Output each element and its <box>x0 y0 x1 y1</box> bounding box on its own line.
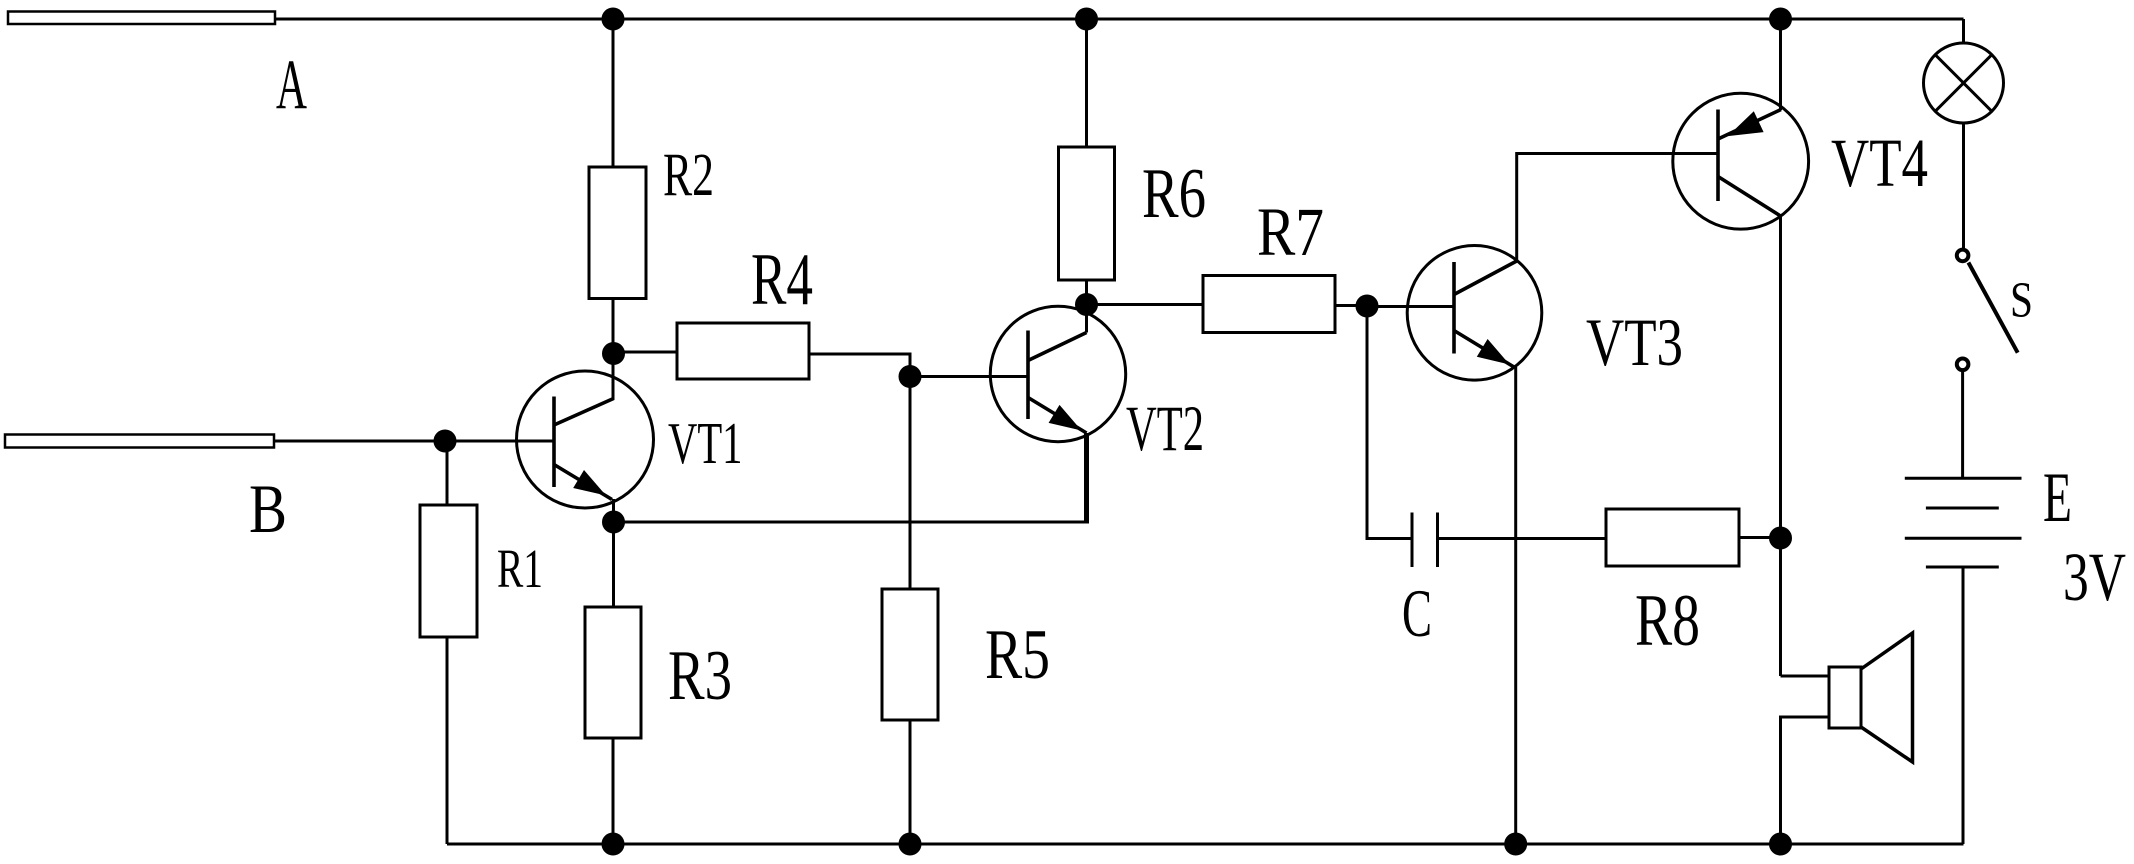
junction top rail / R2 <box>603 9 623 29</box>
capacitor C <box>1412 513 1438 568</box>
wire top rail <box>275 18 1964 21</box>
speaker <box>1829 633 1913 762</box>
wire battery to bottom rail <box>1962 567 1965 844</box>
junction bottom rail / R3 <box>603 834 623 854</box>
probe A <box>8 12 275 25</box>
wire R7 right <box>1335 304 1367 307</box>
wire R2 bottom to VT1 collector <box>612 299 615 401</box>
resistor R8 <box>1606 509 1739 566</box>
wire VT4 emitter up to rail <box>1779 19 1782 110</box>
wire R3 bottom <box>612 738 615 844</box>
svg-text:VT3: VT3 <box>1586 305 1683 380</box>
wire down to R3 <box>612 522 615 607</box>
junction bottom rail / VT3 emitter <box>1506 834 1526 854</box>
wire node to R4 left <box>614 351 678 354</box>
wire VT3 collector up to VT4 base <box>1517 154 1718 262</box>
wire to R7 left <box>1087 303 1204 306</box>
svg-text:VT4: VT4 <box>1831 124 1928 201</box>
wire R5 bottom <box>909 720 912 844</box>
wire VT1 emitter stub <box>612 499 615 522</box>
svg-text:VT2: VT2 <box>1126 392 1204 464</box>
resistor R1 <box>420 505 477 637</box>
junction R8 / VT4 collector <box>1771 528 1791 548</box>
transistor VT3 <box>1407 245 1542 380</box>
junction R7 / C / VT3 base <box>1357 296 1377 316</box>
junction VT1 emitter <box>604 512 624 532</box>
wire junction down to R5 <box>909 377 912 590</box>
svg-text:R4: R4 <box>751 238 813 320</box>
wire down to capacitor C <box>1367 306 1412 539</box>
svg-text:R8: R8 <box>1635 579 1700 661</box>
svg-text:R2: R2 <box>663 141 714 209</box>
svg-text:A: A <box>276 46 307 124</box>
resistor R5 <box>882 589 938 720</box>
wire R1 bottom <box>446 637 449 844</box>
wire R4 right <box>809 354 910 376</box>
svg-text:C: C <box>1402 576 1432 651</box>
wire R6 top <box>1085 19 1088 147</box>
junction VT1 collector node <box>604 344 624 364</box>
wire lamp to switch <box>1962 123 1965 250</box>
wire R1 top <box>446 441 449 505</box>
battery E <box>1905 478 2022 567</box>
svg-text:R5: R5 <box>985 616 1050 694</box>
transistor VT2 <box>990 305 1125 524</box>
wire B to VT1 base <box>274 440 554 443</box>
svg-text:VT1: VT1 <box>668 410 743 476</box>
switch S <box>1957 250 2018 371</box>
junction B / R1 <box>435 431 455 451</box>
resistor R3 <box>585 607 641 738</box>
wire R6 bottom <box>1085 280 1088 305</box>
lamp <box>1924 43 2004 123</box>
wire to VT3 base <box>1367 305 1454 308</box>
junction bottom rail / speaker <box>1771 834 1791 854</box>
wire C to R8 <box>1438 537 1607 540</box>
wire junction to VT2 base <box>910 375 1028 378</box>
junction VT2 collector / R6 / R7 <box>1077 295 1097 315</box>
svg-text:E: E <box>2043 459 2072 537</box>
junction bottom rail / R5 <box>900 834 920 854</box>
junction R4 / R5 / VT2 base <box>900 367 920 387</box>
svg-text:R1: R1 <box>497 538 543 599</box>
svg-text:3V: 3V <box>2063 538 2126 615</box>
wire VT4 collector down <box>1779 216 1782 676</box>
transistor VT1 <box>517 371 654 508</box>
wire emitter run to VT2 emitter <box>614 521 1090 524</box>
svg-text:R3: R3 <box>668 637 732 715</box>
resistor R4 <box>677 323 809 379</box>
transistor VT4 <box>1673 93 1809 229</box>
wire top rail to lamp <box>1962 19 1965 43</box>
wire speaker lower terminal to rail <box>1781 717 1830 844</box>
resistor R7 <box>1203 276 1335 333</box>
resistor R6 <box>1059 147 1115 280</box>
wire switch to battery <box>1961 371 1964 479</box>
junction top rail / R6 <box>1077 9 1097 29</box>
wire R2 top <box>612 19 615 167</box>
svg-text:B: B <box>249 470 287 547</box>
wire VT3 emitter down to rail <box>1514 367 1517 844</box>
resistor R2 <box>589 167 646 299</box>
wire R8 right <box>1739 536 1781 539</box>
svg-text:R7: R7 <box>1257 193 1324 270</box>
junction top rail / VT4 emitter <box>1771 9 1791 29</box>
wire bottom rail <box>447 843 1964 846</box>
svg-text:S: S <box>2010 272 2033 328</box>
wire to speaker upper terminal <box>1781 675 1830 678</box>
probe B <box>5 435 274 448</box>
svg-text:R6: R6 <box>1142 155 1206 233</box>
